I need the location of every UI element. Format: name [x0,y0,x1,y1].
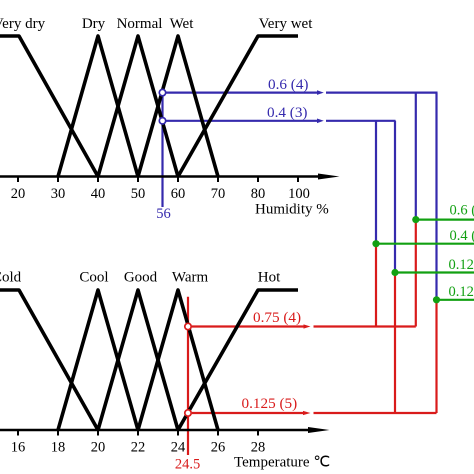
svg-text:Warm: Warm [172,270,209,286]
svg-text:Temperature ℃: Temperature ℃ [234,455,330,471]
svg-text:Normal: Normal [117,16,163,32]
svg-text:0.125 (3): 0.125 (3) [449,257,474,273]
svg-text:18: 18 [51,440,66,456]
svg-text:0.125 (4): 0.125 (4) [449,284,474,300]
svg-text:60: 60 [171,186,186,202]
svg-text:24.5: 24.5 [175,457,200,473]
svg-text:50: 50 [131,186,146,202]
svg-text:Dry: Dry [82,16,106,32]
svg-text:20: 20 [11,186,26,202]
svg-text:20: 20 [91,440,106,456]
svg-text:Very wet: Very wet [259,16,314,32]
svg-text:Cold: Cold [0,270,22,286]
svg-text:Hot: Hot [258,270,281,286]
svg-text:0.6 (4): 0.6 (4) [268,76,309,93]
svg-text:28: 28 [251,440,266,456]
svg-text:Cool: Cool [79,270,108,286]
svg-text:22: 22 [131,440,146,456]
svg-text:Humidity %: Humidity % [255,202,329,218]
svg-text:Wet: Wet [170,16,195,32]
svg-text:26: 26 [211,440,226,456]
svg-text:Very dry: Very dry [0,16,46,32]
svg-text:56: 56 [156,206,171,222]
svg-text:0.6 (2): 0.6 (2) [450,203,474,219]
svg-text:40: 40 [91,186,106,202]
svg-text:Good: Good [124,270,158,286]
svg-text:30: 30 [51,186,66,202]
svg-text:80: 80 [251,186,266,202]
svg-text:70: 70 [211,186,226,202]
svg-text:0.125 (5): 0.125 (5) [242,395,298,412]
svg-text:16: 16 [11,440,26,456]
svg-text:0.4 (1): 0.4 (1) [450,228,474,244]
svg-text:100: 100 [288,186,310,202]
svg-text:24: 24 [171,440,186,456]
svg-text:0.75 (4): 0.75 (4) [253,309,301,326]
svg-text:0.4 (3): 0.4 (3) [267,104,308,121]
